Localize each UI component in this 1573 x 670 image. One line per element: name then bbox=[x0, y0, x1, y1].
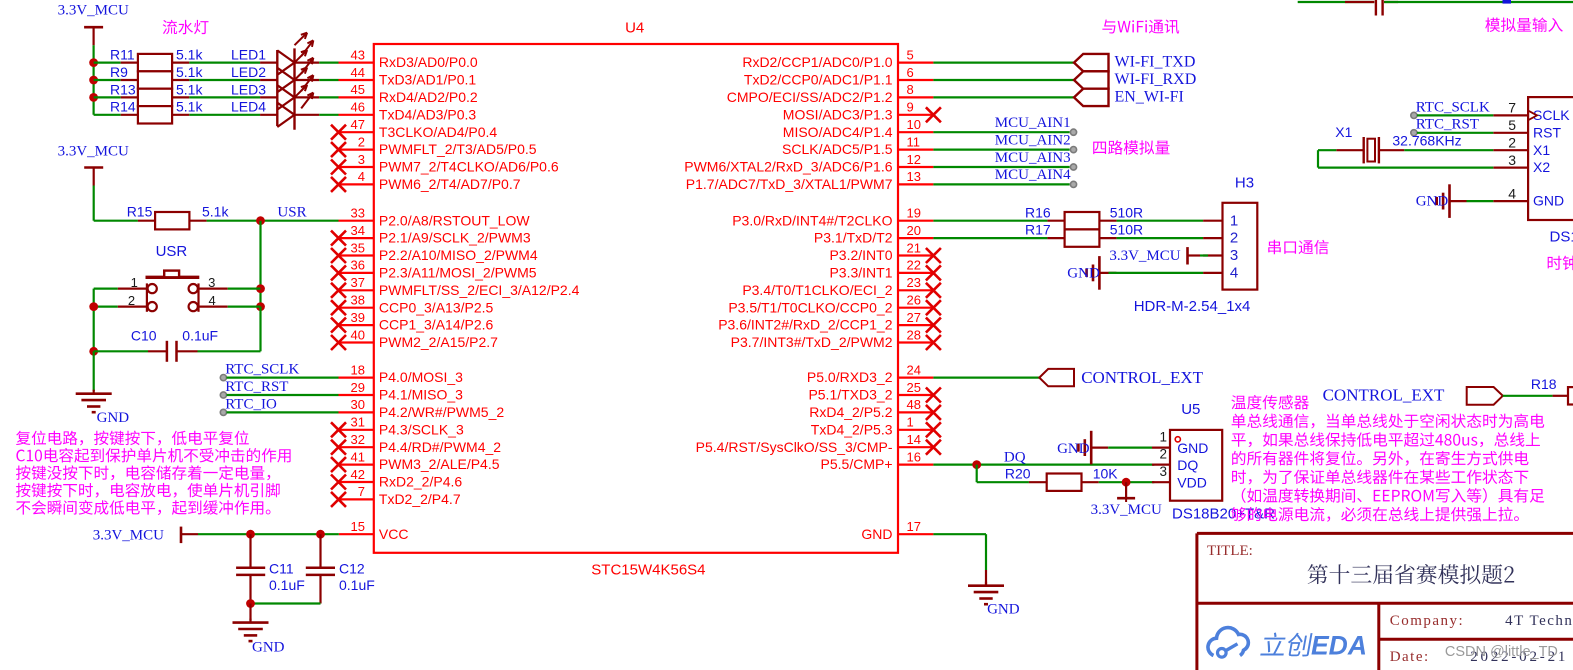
resistor R16 510R bbox=[1025, 204, 1143, 229]
U4 pin 39 CCP1_3/A14/P2.6 bbox=[331, 310, 494, 333]
svg-text:CCP0_3/A13/P2.5: CCP0_3/A13/P2.5 bbox=[379, 299, 494, 315]
U4 pin 6 TxD2/CCP0/ADC1/P1.1 bbox=[744, 65, 934, 88]
svg-text:32.768KHz: 32.768KHz bbox=[1392, 132, 1461, 148]
wire bbox=[1467, 200, 1494, 202]
svg-text:5: 5 bbox=[1508, 117, 1516, 133]
LED LED3 bbox=[231, 68, 319, 110]
svg-text:3: 3 bbox=[1508, 152, 1516, 168]
ground GND (DS18B20 pin1) bbox=[1057, 431, 1108, 465]
svg-text:EN_WI-FI: EN_WI-FI bbox=[1115, 88, 1184, 105]
svg-text:R9: R9 bbox=[110, 64, 128, 80]
U4 pin 48 RxD4_2/P5.2 bbox=[809, 397, 941, 420]
crystal X1 32.768KHz bbox=[1335, 124, 1461, 164]
svg-text:RTC_SCLK: RTC_SCLK bbox=[225, 362, 299, 378]
wire bbox=[933, 220, 1047, 222]
svg-text:29: 29 bbox=[351, 380, 365, 395]
U4 pin 10 MISO/ADC4/P1.4 bbox=[783, 117, 934, 140]
annotation text (DS18B20 description) bbox=[1231, 395, 1544, 522]
svg-text:P5.0/RXD3_2: P5.0/RXD3_2 bbox=[807, 369, 893, 385]
svg-text:17: 17 bbox=[907, 519, 921, 534]
U4 pin 11 SCLK/ADC5/P1.5 bbox=[782, 134, 933, 157]
svg-text:TITLE:: TITLE: bbox=[1207, 543, 1253, 559]
wire bbox=[933, 96, 1074, 98]
svg-text:H3: H3 bbox=[1235, 175, 1254, 192]
power flag 3.3V_MCU (H3 pin3) bbox=[1109, 247, 1208, 264]
svg-text:WI-FI_TXD: WI-FI_TXD bbox=[1115, 54, 1196, 71]
svg-text:DQ: DQ bbox=[1004, 449, 1026, 465]
svg-text:P4.0/MOSI_3: P4.0/MOSI_3 bbox=[379, 369, 463, 385]
svg-text:47: 47 bbox=[351, 117, 365, 132]
svg-text:SCLK/ADC5/P1.5: SCLK/ADC5/P1.5 bbox=[782, 141, 893, 157]
svg-text:GND: GND bbox=[1533, 193, 1564, 209]
svg-text:10: 10 bbox=[907, 117, 921, 132]
svg-text:5: 5 bbox=[907, 47, 914, 62]
wire bbox=[933, 79, 1074, 81]
net label MCU_AIN4 bbox=[995, 167, 1077, 187]
wire bbox=[198, 533, 339, 535]
U4 pin 18 P4.0/MOSI_3 bbox=[339, 362, 464, 385]
svg-text:P3.5/T1/T0CLKO/CCP0_2: P3.5/T1/T0CLKO/CCP0_2 bbox=[728, 299, 892, 315]
U4 pin 3 PWM7_2/T4CLKO/AD6/P0.6 bbox=[331, 152, 559, 175]
svg-text:TxD2_2/P4.7: TxD2_2/P4.7 bbox=[379, 491, 461, 507]
svg-text:43: 43 bbox=[351, 47, 365, 62]
svg-text:MCU_AIN1: MCU_AIN1 bbox=[995, 115, 1071, 131]
RTC chip U? DS1302 (clipped at right edge) bbox=[1493, 97, 1573, 245]
svg-text:USR: USR bbox=[277, 204, 306, 220]
resistor R13 5.1k bbox=[110, 81, 203, 106]
wire bbox=[976, 465, 978, 483]
svg-text:5.1k: 5.1k bbox=[176, 81, 203, 97]
svg-text:R14: R14 bbox=[110, 99, 136, 115]
U4 pin 31 P4.3/SCLK_3 bbox=[331, 415, 464, 438]
svg-text:3.3V_MCU: 3.3V_MCU bbox=[1091, 502, 1162, 518]
svg-text:3.3V_MCU: 3.3V_MCU bbox=[58, 3, 129, 19]
svg-text:R16: R16 bbox=[1025, 204, 1051, 220]
svg-text:P3.3/INT1: P3.3/INT1 bbox=[829, 265, 892, 281]
svg-text:23: 23 bbox=[907, 275, 921, 290]
svg-text:CONTROL_EXT: CONTROL_EXT bbox=[1323, 385, 1445, 404]
U4 pin 16 P5.5/CMP+ bbox=[821, 449, 934, 472]
net label RTC_SCLK bbox=[220, 362, 299, 381]
net label RTC_IO bbox=[220, 396, 277, 415]
junction bbox=[256, 302, 265, 311]
svg-text:12: 12 bbox=[907, 152, 921, 167]
svg-text:MCU_AIN4: MCU_AIN4 bbox=[995, 167, 1071, 183]
annotation text 四路模拟量 bbox=[1093, 140, 1169, 154]
U4 pin 41 PWM3_2/ALE/P4.5 bbox=[331, 449, 500, 472]
svg-text:TxD4/AD3/P0.3: TxD4/AD3/P0.3 bbox=[379, 106, 476, 122]
svg-text:3.3V_MCU: 3.3V_MCU bbox=[93, 527, 164, 543]
title block frame bbox=[1197, 533, 1573, 670]
svg-text:2: 2 bbox=[128, 293, 135, 308]
svg-text:CSDN @little_TD: CSDN @little_TD bbox=[1445, 644, 1558, 660]
wire bbox=[1298, 1, 1375, 3]
U4 pin 25 P5.1/TXD3_2 bbox=[808, 380, 940, 403]
svg-text:RST: RST bbox=[1533, 124, 1561, 140]
wire bbox=[189, 61, 260, 63]
svg-text:TxD3/AD1/P0.1: TxD3/AD1/P0.1 bbox=[379, 72, 476, 88]
svg-text:4: 4 bbox=[209, 293, 216, 308]
svg-text:TxD4_2/P5.3: TxD4_2/P5.3 bbox=[811, 421, 893, 437]
wire bbox=[1417, 114, 1493, 116]
svg-text:P5.1/TXD3_2: P5.1/TXD3_2 bbox=[808, 387, 892, 403]
svg-text:P3.7/INT3#/TxD_2/PWM2: P3.7/INT3#/TxD_2/PWM2 bbox=[731, 334, 893, 350]
svg-text:22: 22 bbox=[907, 258, 921, 273]
wire bbox=[92, 45, 94, 115]
svg-text:36: 36 bbox=[351, 258, 365, 273]
annotation text (reset circuit description) bbox=[16, 431, 291, 515]
wire bbox=[319, 114, 338, 116]
svg-text:SCLK: SCLK bbox=[1533, 107, 1570, 123]
annotation text 串口通信 bbox=[1268, 240, 1328, 254]
U4 pin 23 P3.4/T0/T1CLKO/ECI_2 bbox=[742, 275, 941, 298]
svg-text:C10: C10 bbox=[131, 327, 157, 343]
svg-text:510R: 510R bbox=[1110, 222, 1143, 238]
capacitor C10 0.1uF bbox=[131, 327, 218, 362]
svg-text:P3.2/INT0: P3.2/INT0 bbox=[829, 247, 892, 263]
svg-text:8: 8 bbox=[907, 82, 914, 97]
svg-text:P1.7/ADC7/TxD_3/XTAL1/PWM7: P1.7/ADC7/TxD_3/XTAL1/PWM7 bbox=[686, 176, 893, 192]
wire bbox=[259, 221, 261, 307]
junction bbox=[89, 302, 98, 311]
svg-text:HDR-M-2.54_1x4: HDR-M-2.54_1x4 bbox=[1134, 298, 1251, 315]
svg-text:LED3: LED3 bbox=[231, 81, 266, 97]
net flag CONTROL_EXT (to R18) bbox=[1323, 385, 1503, 404]
svg-text:39: 39 bbox=[351, 310, 365, 325]
U4 pin 33 P2.0/A8/RSTOUT_LOW bbox=[339, 206, 531, 229]
svg-text:CMPO/ECI/SS/ADC2/P1.2: CMPO/ECI/SS/ADC2/P1.2 bbox=[727, 89, 893, 105]
junction bbox=[256, 284, 265, 293]
svg-text:24: 24 bbox=[907, 362, 921, 377]
annotation text 时钟 (clipped) bbox=[1548, 256, 1573, 270]
net label MCU_AIN1 bbox=[995, 115, 1077, 135]
svg-text:Date:: Date: bbox=[1390, 649, 1430, 665]
wire bbox=[189, 114, 260, 116]
svg-text:PWM6/XTAL2/RxD_3/ADC6/P1.6: PWM6/XTAL2/RxD_3/ADC6/P1.6 bbox=[684, 159, 892, 175]
svg-text:P5.5/CMP+: P5.5/CMP+ bbox=[821, 456, 893, 472]
wire bbox=[1117, 220, 1204, 222]
wire bbox=[1099, 481, 1155, 483]
svg-text:LED4: LED4 bbox=[231, 99, 266, 115]
LED LED1 bbox=[231, 33, 319, 75]
wire bbox=[228, 288, 261, 290]
resistor R9 5.1k bbox=[110, 64, 203, 89]
U4 pin 19 P3.0/RxD/INT4#/T2CLKO bbox=[732, 206, 933, 229]
svg-text:20: 20 bbox=[907, 223, 921, 238]
U4 pin 17 GND bbox=[861, 519, 933, 542]
svg-text:P5.4/RST/SysClkO/SS_3/CMP-: P5.4/RST/SysClkO/SS_3/CMP- bbox=[696, 439, 893, 455]
annotation text 流水灯 bbox=[163, 20, 209, 34]
svg-text:RTC_SCLK: RTC_SCLK bbox=[1416, 99, 1490, 115]
svg-text:P4.3/SCLK_3: P4.3/SCLK_3 bbox=[379, 421, 464, 437]
wire bbox=[1503, 395, 1553, 397]
resistor R20 10K bbox=[1005, 465, 1118, 491]
net label MCU_AIN2 bbox=[995, 132, 1077, 152]
svg-text:4: 4 bbox=[1508, 185, 1516, 201]
svg-text:45: 45 bbox=[351, 82, 365, 97]
svg-text:P2.0/A8/RSTOUT_LOW: P2.0/A8/RSTOUT_LOW bbox=[379, 212, 530, 228]
U4 pin 12 PWM6/XTAL2/RxD_3/ADC6/P1.6 bbox=[684, 152, 933, 175]
svg-text:R11: R11 bbox=[110, 47, 135, 63]
junction bbox=[89, 76, 98, 85]
U4 pin 45 RxD4/AD2/P0.2 bbox=[339, 82, 478, 105]
wire bbox=[319, 61, 338, 63]
resistor R18 (clipped) bbox=[1531, 376, 1573, 404]
power flag 3.3V_MCU (VCC) bbox=[93, 527, 198, 544]
svg-text:0.1uF: 0.1uF bbox=[339, 577, 375, 593]
wire bbox=[94, 61, 121, 63]
svg-text:R15: R15 bbox=[127, 203, 153, 219]
svg-text:X2: X2 bbox=[1533, 159, 1550, 175]
wire bbox=[1109, 272, 1204, 274]
svg-text:P4.4/RD#/PWM4_2: P4.4/RD#/PWM4_2 bbox=[379, 439, 501, 455]
svg-text:RTC_RST: RTC_RST bbox=[1416, 117, 1479, 133]
svg-text:2: 2 bbox=[1508, 134, 1516, 150]
svg-text:3.3V_MCU: 3.3V_MCU bbox=[1109, 248, 1180, 264]
LED LED2 bbox=[231, 50, 319, 92]
wire bbox=[227, 377, 339, 379]
svg-text:P4.2/WR#/PWM5_2: P4.2/WR#/PWM5_2 bbox=[379, 404, 504, 420]
wire bbox=[1384, 1, 1573, 3]
power flag 3.3V_MCU (reset circuit) bbox=[58, 144, 129, 186]
U4 pin 5 RxD2/CCP1/ADC0/P1.0 bbox=[742, 47, 933, 70]
wire bbox=[319, 79, 338, 81]
power flag 3.3V_MCU (DS18B20 VDD) bbox=[1091, 482, 1162, 518]
wire bbox=[1318, 149, 1336, 151]
power flag 3.3V_MCU (LED bank) bbox=[58, 3, 129, 46]
net label fragment (clipped) bbox=[1503, 0, 1512, 4]
svg-text:PWMFLT/SS_2/ECI_3/A12/P2.4: PWMFLT/SS_2/ECI_3/A12/P2.4 bbox=[379, 282, 580, 298]
svg-text:P2.3/A11/MOSI_2/PWM5: P2.3/A11/MOSI_2/PWM5 bbox=[379, 265, 537, 281]
junction bbox=[972, 460, 981, 469]
junction bbox=[89, 58, 98, 67]
U4 pin 30 P4.2/WR#/PWM5_2 bbox=[339, 397, 505, 420]
wire bbox=[1117, 237, 1204, 239]
svg-text:MOSI/ADC3/P1.3: MOSI/ADC3/P1.3 bbox=[783, 106, 893, 122]
junction bbox=[89, 93, 98, 102]
U4 pin 13 P1.7/ADC7/TxD_3/XTAL1/PWM7 bbox=[686, 169, 934, 192]
capacitor C12 0.1uF bbox=[306, 534, 375, 603]
svg-text:9: 9 bbox=[907, 100, 914, 115]
push button USR bbox=[118, 243, 228, 312]
U4 pin 42 RxD2_2/P4.6 bbox=[331, 467, 462, 490]
wire bbox=[1404, 149, 1493, 151]
resistor R11 5.1k bbox=[110, 47, 203, 72]
svg-text:44: 44 bbox=[351, 65, 365, 80]
svg-text:3: 3 bbox=[1230, 247, 1238, 264]
wire bbox=[933, 149, 1069, 151]
svg-text:19: 19 bbox=[907, 206, 921, 221]
U4 pin 35 P2.2/A10/MISO_2/PWM4 bbox=[331, 240, 538, 263]
svg-text:WI-FI_RXD: WI-FI_RXD bbox=[1115, 71, 1197, 88]
svg-text:P3.4/T0/T1CLKO/ECI_2: P3.4/T0/T1CLKO/ECI_2 bbox=[742, 282, 892, 298]
svg-text:38: 38 bbox=[351, 293, 365, 308]
U4 pin 43 RxD3/AD0/P0.0 bbox=[339, 47, 478, 70]
svg-text:T3CLKO/AD4/P0.4: T3CLKO/AD4/P0.4 bbox=[379, 124, 497, 140]
svg-text:U5: U5 bbox=[1181, 401, 1200, 418]
title 第十三届省赛模拟题2 bbox=[1308, 564, 1515, 584]
svg-text:GND: GND bbox=[1067, 265, 1100, 281]
svg-text:2: 2 bbox=[1230, 230, 1238, 247]
svg-text:0.1uF: 0.1uF bbox=[182, 327, 218, 343]
svg-text:P3.1/TxD/T2: P3.1/TxD/T2 bbox=[814, 230, 893, 246]
wire bbox=[933, 183, 1069, 185]
svg-text:42: 42 bbox=[351, 467, 365, 482]
wire bbox=[1417, 132, 1493, 134]
svg-text:3.3V_MCU: 3.3V_MCU bbox=[58, 144, 129, 160]
wire bbox=[93, 351, 95, 391]
junction bbox=[89, 347, 98, 356]
svg-text:2: 2 bbox=[1159, 446, 1167, 461]
svg-text:VCC: VCC bbox=[379, 526, 409, 542]
svg-text:P2.1/A9/SCLK_2/PWM3: P2.1/A9/SCLK_2/PWM3 bbox=[379, 230, 531, 246]
svg-text:6: 6 bbox=[907, 65, 914, 80]
net flag CONTROL_EXT (pin 24) bbox=[1039, 368, 1203, 387]
U4 pin 40 PWM2_2/A15/P2.7 bbox=[331, 327, 498, 350]
svg-text:34: 34 bbox=[351, 223, 365, 238]
wire bbox=[933, 464, 1154, 466]
svg-text:CONTROL_EXT: CONTROL_EXT bbox=[1081, 368, 1203, 387]
svg-text:MISO/ADC4/P1.4: MISO/ADC4/P1.4 bbox=[783, 124, 893, 140]
svg-text:PWM2_2/A15/P2.7: PWM2_2/A15/P2.7 bbox=[379, 334, 498, 350]
svg-text:5.1k: 5.1k bbox=[202, 203, 229, 219]
svg-text:R17: R17 bbox=[1025, 222, 1051, 238]
svg-text:30: 30 bbox=[351, 397, 365, 412]
wire bbox=[933, 131, 1069, 133]
svg-text:CCP1_3/A14/P2.6: CCP1_3/A14/P2.6 bbox=[379, 317, 494, 333]
ground GND (decoupling) bbox=[233, 604, 285, 656]
svg-text:25: 25 bbox=[907, 380, 921, 395]
svg-text:GND: GND bbox=[1057, 441, 1090, 457]
svg-text:PWM7_2/T4CLKO/AD6/P0.6: PWM7_2/T4CLKO/AD6/P0.6 bbox=[379, 159, 559, 175]
U4 pin 2 PWMFLT_2/T3/AD5/P0.5 bbox=[331, 134, 537, 157]
svg-text:X1: X1 bbox=[1335, 124, 1352, 140]
svg-text:1: 1 bbox=[131, 275, 138, 290]
svg-text:4: 4 bbox=[1230, 265, 1238, 282]
U4 pin 28 P3.7/INT3#/TxD_2/PWM2 bbox=[731, 327, 941, 350]
U4 pin 20 P3.1/TxD/T2 bbox=[814, 223, 933, 246]
svg-text:TxD2/CCP0/ADC1/P1.1: TxD2/CCP0/ADC1/P1.1 bbox=[744, 72, 893, 88]
svg-text:7: 7 bbox=[358, 484, 365, 499]
ground GND (U4 pin17) bbox=[968, 570, 1020, 618]
svg-text:16: 16 bbox=[907, 449, 921, 464]
resistor R15 5.1k bbox=[127, 203, 230, 229]
net label RTC_SCLK bbox=[1411, 99, 1490, 118]
svg-text:11: 11 bbox=[907, 134, 921, 149]
wire bbox=[93, 186, 95, 221]
svg-text:R13: R13 bbox=[110, 81, 136, 97]
U4 pin 15 VCC bbox=[339, 519, 409, 542]
U4 pin 36 P2.3/A11/MOSI_2/PWM5 bbox=[331, 258, 537, 281]
wire bbox=[251, 602, 321, 604]
svg-text:EDA: EDA bbox=[1311, 631, 1367, 661]
svg-text:R20: R20 bbox=[1005, 465, 1031, 481]
svg-text:4: 4 bbox=[358, 169, 365, 184]
net label USR bbox=[277, 204, 306, 220]
svg-text:P2.2/A10/MISO_2/PWM4: P2.2/A10/MISO_2/PWM4 bbox=[379, 247, 538, 263]
resistor R14 5.1k bbox=[110, 99, 203, 124]
wire bbox=[227, 411, 339, 413]
svg-text:32: 32 bbox=[351, 432, 365, 447]
wire bbox=[227, 394, 339, 396]
U4 pin 1 TxD4_2/P5.3 bbox=[811, 415, 941, 438]
ground GND (reset circuit) bbox=[76, 390, 130, 426]
U4 pin 47 T3CLKO/AD4/P0.4 bbox=[331, 117, 497, 140]
svg-text:1: 1 bbox=[907, 415, 914, 430]
svg-text:RxD2_2/P4.6: RxD2_2/P4.6 bbox=[379, 474, 462, 490]
svg-text:4T Technology: 4T Technology bbox=[1505, 613, 1573, 629]
svg-text:14: 14 bbox=[907, 432, 921, 447]
svg-text:5.1k: 5.1k bbox=[176, 64, 203, 80]
svg-text:5.1k: 5.1k bbox=[176, 47, 203, 63]
svg-text:510R: 510R bbox=[1110, 204, 1143, 220]
junction bbox=[256, 216, 265, 225]
svg-text:GND: GND bbox=[861, 526, 892, 542]
EasyEDA logo bbox=[1208, 628, 1367, 661]
svg-text:48: 48 bbox=[907, 397, 921, 412]
net flag WI-FI_TXD bbox=[1074, 54, 1195, 72]
svg-text:46: 46 bbox=[351, 100, 365, 115]
svg-text:P3.6/INT2#/RxD_2/CCP1_2: P3.6/INT2#/RxD_2/CCP1_2 bbox=[718, 317, 893, 333]
svg-text:18: 18 bbox=[351, 362, 365, 377]
U4 pin 26 P3.5/T1/T0CLKO/CCP0_2 bbox=[728, 293, 941, 316]
LED bank anode bus line bbox=[276, 50, 278, 126]
svg-text:P3.0/RxD/INT4#/T2CLKO: P3.0/RxD/INT4#/T2CLKO bbox=[732, 212, 892, 228]
svg-text:10K: 10K bbox=[1093, 465, 1119, 481]
wire bbox=[933, 166, 1069, 168]
svg-text:3: 3 bbox=[358, 152, 365, 167]
wire bbox=[319, 96, 338, 98]
U4 pin 9 MOSI/ADC3/P1.3 bbox=[783, 100, 941, 123]
U4 pin 46 TxD4/AD3/P0.3 bbox=[339, 100, 477, 123]
svg-text:RxD3/AD0/P0.0: RxD3/AD0/P0.0 bbox=[379, 54, 478, 70]
wire bbox=[933, 377, 1039, 379]
svg-text:PWM3_2/ALE/P4.5: PWM3_2/ALE/P4.5 bbox=[379, 456, 500, 472]
net flag WI-FI_RXD bbox=[1074, 71, 1196, 89]
net flag EN_WI-FI bbox=[1074, 88, 1184, 106]
svg-text:0.1uF: 0.1uF bbox=[269, 577, 305, 593]
svg-text:MCU_AIN2: MCU_AIN2 bbox=[995, 132, 1071, 148]
svg-text:X1: X1 bbox=[1533, 142, 1550, 158]
svg-text:35: 35 bbox=[351, 240, 365, 255]
svg-text:RxD2/CCP1/ADC0/P1.0: RxD2/CCP1/ADC0/P1.0 bbox=[742, 54, 892, 70]
capacitor (partial, off-sheet) bbox=[1345, 0, 1398, 16]
svg-text:VDD: VDD bbox=[1177, 475, 1207, 491]
svg-text:21: 21 bbox=[907, 240, 921, 255]
svg-text:40: 40 bbox=[351, 327, 365, 342]
U4 pin 38 CCP0_3/A13/P2.5 bbox=[331, 293, 494, 316]
U4 pin 4 PWM6_2/T4/AD7/P0.7 bbox=[331, 169, 521, 192]
wire bbox=[259, 307, 261, 352]
svg-text:37: 37 bbox=[351, 275, 365, 290]
resistor R17 510R bbox=[1025, 222, 1143, 247]
microcontroller U4 STC15W4K56S4 bbox=[374, 44, 898, 553]
svg-text:C11: C11 bbox=[269, 561, 294, 577]
U4 pin 27 P3.6/INT2#/RxD_2/CCP1_2 bbox=[718, 310, 941, 333]
capacitor C11 0.1uF bbox=[236, 534, 305, 603]
temperature sensor U5 DS18B20+T&R bbox=[1152, 401, 1275, 522]
svg-text:GND: GND bbox=[1416, 194, 1449, 210]
svg-text:7: 7 bbox=[1508, 100, 1516, 116]
svg-text:LED1: LED1 bbox=[231, 47, 266, 63]
svg-text:2: 2 bbox=[358, 134, 365, 149]
wire bbox=[933, 237, 1047, 239]
svg-text:RTC_RST: RTC_RST bbox=[225, 379, 288, 395]
svg-text:3: 3 bbox=[208, 275, 215, 290]
svg-text:DS1302: DS1302 bbox=[1550, 229, 1573, 246]
U4 pin 34 P2.1/A9/SCLK_2/PWM3 bbox=[331, 223, 531, 246]
wire bbox=[933, 61, 1074, 63]
